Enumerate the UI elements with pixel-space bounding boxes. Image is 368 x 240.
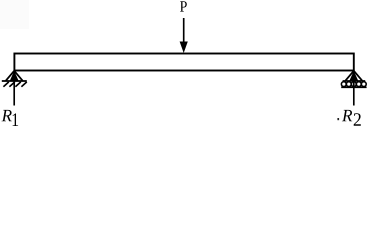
- load P arrow stem: [183, 18, 185, 44]
- reaction R2 arrow stem: [353, 80, 355, 106]
- load label P: [180, 1, 187, 11]
- reaction label R1: [2, 110, 12, 121]
- roller circle 2: [346, 82, 351, 87]
- roller circle 4: [356, 82, 361, 87]
- right support ground line: [341, 86, 366, 88]
- reaction R1 arrow stem: [13, 80, 15, 106]
- load P arrowhead (down): [180, 42, 188, 54]
- left pin support triangle: [6, 71, 23, 81]
- left support hatch 3: [15, 82, 20, 87]
- faint corner patch: [0, 0, 29, 29]
- left support hatch 2: [9, 82, 14, 87]
- left support ground line: [2, 80, 27, 82]
- reaction R2 arrowhead (up): [350, 71, 359, 81]
- speck artifact near R2: [337, 118, 339, 120]
- roller circle 5: [361, 82, 366, 87]
- reaction label R2: [342, 110, 352, 121]
- beam (rectangle outline): [14, 54, 353, 71]
- left support hatch 4: [21, 82, 26, 87]
- right support base line: [343, 80, 366, 82]
- roller circle 3: [351, 82, 356, 87]
- right roller support triangle: [345, 71, 362, 81]
- reaction R1 arrowhead (up): [10, 71, 19, 81]
- roller circle 1: [341, 82, 346, 87]
- left support hatch 1: [3, 82, 8, 87]
